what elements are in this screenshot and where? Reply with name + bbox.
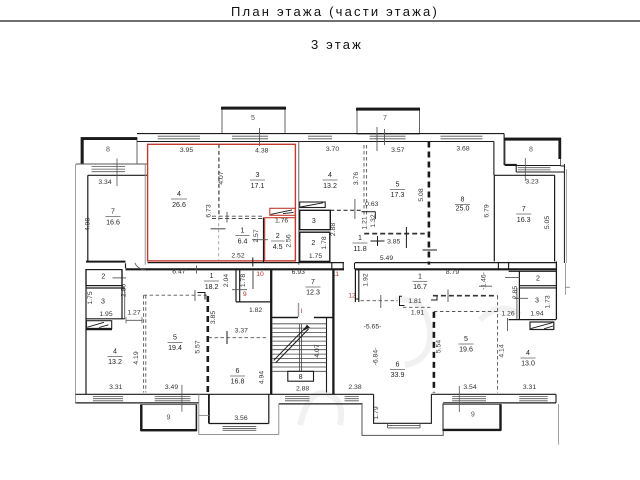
svg-text:1.79: 1.79 <box>373 406 380 419</box>
svg-text:1: 1 <box>241 227 245 235</box>
red apartment boundary <box>148 144 296 261</box>
balcony 7 top <box>356 108 420 134</box>
svg-text:5: 5 <box>173 334 177 342</box>
svg-text:6: 6 <box>396 361 400 369</box>
svg-text:4.07: 4.07 <box>314 344 321 357</box>
door jambs corridor <box>332 263 509 270</box>
stair arrow <box>274 327 309 363</box>
svg-text:13.0: 13.0 <box>521 360 535 368</box>
svg-text:1.32: 1.32 <box>370 214 377 227</box>
outer left facade line <box>75 164 77 403</box>
svg-text:7: 7 <box>311 278 315 286</box>
svg-text:16.8: 16.8 <box>231 378 245 386</box>
room 4/13.2 upper label <box>323 171 338 190</box>
svg-text:17.3: 17.3 <box>391 191 405 199</box>
svg-text:3.31: 3.31 <box>109 384 122 391</box>
small room 3 upper-right <box>300 210 331 229</box>
svg-text:1.92: 1.92 <box>362 273 369 286</box>
svg-text:3.70: 3.70 <box>326 146 339 153</box>
svg-text:19.4: 19.4 <box>168 344 182 352</box>
svg-text:3: 3 <box>101 298 105 306</box>
svg-text:3.54: 3.54 <box>463 384 476 391</box>
top wall right section <box>505 158 565 186</box>
svg-text:2: 2 <box>276 232 280 240</box>
room 7/12.3 label <box>306 278 321 297</box>
svg-text:3.85: 3.85 <box>387 239 400 246</box>
dashed partitions flat 12 <box>361 301 434 308</box>
svg-text:4: 4 <box>328 171 332 179</box>
balcony 9 bottom-right <box>443 404 501 430</box>
bottom windows <box>93 397 548 401</box>
svg-text:4.38: 4.38 <box>255 148 268 155</box>
svg-text:6: 6 <box>236 367 240 375</box>
svg-text:4.5: 4.5 <box>273 243 283 251</box>
room 1 label <box>236 227 250 246</box>
svg-text:3.34: 3.34 <box>98 179 111 186</box>
right outer wall <box>563 164 565 263</box>
bold dashed panel wall 17.3(11.8)/25.0 <box>428 142 431 265</box>
svg-text:2.38: 2.38 <box>348 384 361 391</box>
stairwell right wall <box>332 269 334 394</box>
svg-text:1.82: 1.82 <box>249 307 262 314</box>
svg-text:-5.65-: -5.65- <box>364 324 382 331</box>
svg-text:18.2: 18.2 <box>205 283 219 291</box>
wall room1/room2 <box>263 218 265 263</box>
svg-text:5.05: 5.05 <box>544 216 551 229</box>
porch outer <box>362 403 443 436</box>
room 1/18.2 label <box>204 272 219 291</box>
svg-text:3.31: 3.31 <box>523 384 536 391</box>
svg-text:1.95: 1.95 <box>99 311 112 318</box>
svg-text:1.76: 1.76 <box>275 217 288 224</box>
svg-text:11.8: 11.8 <box>353 245 366 253</box>
svg-text:1.81: 1.81 <box>408 298 421 305</box>
hatch box below room 3 <box>87 321 113 330</box>
porch steps <box>388 423 421 428</box>
hatch box below right room 3 <box>530 322 554 330</box>
svg-text:16.6: 16.6 <box>106 219 120 227</box>
svg-text:6.47: 6.47 <box>172 269 185 276</box>
svg-text:3 этаж: 3 этаж <box>311 37 363 52</box>
svg-text:6.73: 6.73 <box>205 204 212 217</box>
svg-text:4.98: 4.98 <box>85 218 92 231</box>
svg-text:I: I <box>301 308 303 315</box>
top wall main block <box>137 127 504 151</box>
open door leaf flat9 <box>252 270 254 289</box>
svg-text:1.27: 1.27 <box>127 310 140 317</box>
svg-text:3.68: 3.68 <box>456 146 469 153</box>
dashed partition above small rooms <box>330 209 363 211</box>
svg-text:4.19: 4.19 <box>133 351 140 364</box>
room 4 label <box>171 190 187 209</box>
svg-text:План этажа (части этажа): План этажа (части этажа) <box>231 4 439 19</box>
wall red apt / room 4-13.2 <box>298 142 300 265</box>
balcony 5 top <box>221 107 286 134</box>
room 7/16.3 top wall inner <box>494 175 554 261</box>
small room 2 upper-right <box>300 232 330 261</box>
svg-text:5: 5 <box>396 181 400 189</box>
protrusion room 16.8 lower part <box>199 394 279 434</box>
room 3 label <box>250 171 265 190</box>
svg-text:2.57: 2.57 <box>253 229 260 242</box>
room 4/13.2 lower label <box>108 348 123 367</box>
svg-text:8: 8 <box>299 373 303 381</box>
svg-text:2: 2 <box>536 275 540 283</box>
stair stringer <box>300 324 302 372</box>
svg-text:4.94: 4.94 <box>259 371 266 384</box>
room 5/17.3 label <box>390 181 405 200</box>
stair treads <box>273 324 327 372</box>
svg-text:3.37: 3.37 <box>235 328 248 335</box>
svg-text:0.63: 0.63 <box>365 201 378 208</box>
dashed partition room4/room1 <box>212 216 264 218</box>
room 1/16.7 label <box>413 272 428 291</box>
svg-text:5: 5 <box>251 114 255 122</box>
svg-text:13.2: 13.2 <box>108 358 122 366</box>
balcony 9 bottom-left <box>141 405 197 431</box>
room 4/13.0 label <box>521 349 536 368</box>
svg-text:26.6: 26.6 <box>172 201 186 209</box>
L bracket <box>198 293 206 300</box>
wall between room 7 and room 4 <box>144 164 146 265</box>
svg-text:2.86: 2.86 <box>120 284 127 297</box>
double dashed partition 13.2/17.3 <box>364 145 367 216</box>
door brackets <box>362 212 385 246</box>
svg-text:3.23: 3.23 <box>525 179 538 186</box>
bottom wall line B <box>76 403 557 404</box>
svg-text:8: 8 <box>461 196 465 204</box>
svg-text:3.57: 3.57 <box>391 147 404 154</box>
svg-text:16.7: 16.7 <box>413 283 427 291</box>
svg-text:5.57: 5.57 <box>195 340 202 353</box>
right lower stub <box>558 404 560 445</box>
svg-text:7: 7 <box>111 208 115 216</box>
svg-text:4: 4 <box>177 190 181 198</box>
svg-text:6.4: 6.4 <box>238 238 248 246</box>
svg-text:2: 2 <box>311 239 315 247</box>
svg-text:5.54: 5.54 <box>436 340 443 353</box>
balcony 8 top-left <box>81 138 137 165</box>
svg-text:5: 5 <box>464 335 468 343</box>
svg-text:5.08: 5.08 <box>418 188 425 201</box>
room 5/19.4 label <box>168 334 183 353</box>
svg-text:4: 4 <box>113 348 117 356</box>
lower-left room 2 <box>86 270 126 286</box>
svg-text:4.14: 4.14 <box>498 344 505 357</box>
svg-text:1.26: 1.26 <box>501 311 514 318</box>
room 2 label <box>271 232 285 251</box>
svg-text:4: 4 <box>526 349 530 357</box>
svg-text:1.21: 1.21 <box>361 216 368 229</box>
svg-text:2.52: 2.52 <box>231 252 244 259</box>
door arc <box>135 263 148 270</box>
svg-text:1.73: 1.73 <box>545 295 552 308</box>
svg-text:3.95: 3.95 <box>180 147 193 154</box>
room 7/16.6 label <box>106 208 121 227</box>
bold dashed wall 33.9/19.6 <box>433 312 436 393</box>
left wall upper (room 7/16.6) <box>87 175 89 261</box>
svg-text:1.75: 1.75 <box>309 253 322 260</box>
room 6/16.8 label <box>230 367 245 386</box>
svg-text:6.93: 6.93 <box>292 269 305 276</box>
room 7/16.3 label <box>516 205 531 224</box>
svg-text:4.07: 4.07 <box>218 171 225 184</box>
svg-text:1.75: 1.75 <box>87 291 94 304</box>
svg-text:2.85: 2.85 <box>512 286 519 299</box>
step in outline to right section <box>494 134 516 176</box>
room 8/25.0 label <box>455 196 470 213</box>
svg-text:10: 10 <box>256 271 264 278</box>
svg-text:2.88: 2.88 <box>296 386 309 393</box>
svg-text:9: 9 <box>167 414 171 422</box>
corridor upper line <box>86 261 126 263</box>
svg-text:8.79: 8.79 <box>446 269 459 276</box>
porch inner <box>374 394 432 423</box>
svg-text:9: 9 <box>243 291 247 298</box>
left wall lower <box>85 269 87 394</box>
room 7 right wall <box>554 175 556 261</box>
dashed partition room4/room3 <box>218 144 220 217</box>
svg-text:33.9: 33.9 <box>391 371 405 379</box>
svg-text:1.78: 1.78 <box>240 274 247 287</box>
svg-text:9: 9 <box>471 411 475 419</box>
lower-right rooms 2 and 3 <box>479 261 556 331</box>
dashed double partition 13.2/19.4 <box>144 295 146 392</box>
svg-text:17.1: 17.1 <box>251 182 265 190</box>
flat 9 hall walls <box>236 269 272 302</box>
svg-text:16.3: 16.3 <box>517 216 531 224</box>
svg-text:-6.84-: -6.84- <box>372 348 379 366</box>
dim 1.27 <box>126 310 142 324</box>
svg-text:1: 1 <box>418 272 422 280</box>
svg-text:1: 1 <box>210 272 214 280</box>
svg-text:25.0: 25.0 <box>456 205 470 213</box>
window below balcony 8 TL <box>76 159 148 187</box>
svg-text:1: 1 <box>358 234 362 242</box>
svg-text:3.76: 3.76 <box>353 172 360 185</box>
svg-text:7: 7 <box>383 114 387 122</box>
svg-text:2.04: 2.04 <box>223 274 230 287</box>
room 5/19.6 label <box>459 335 474 354</box>
bottom wall line A <box>76 393 557 395</box>
svg-text:3: 3 <box>312 217 316 225</box>
svg-text:19.6: 19.6 <box>459 346 473 354</box>
red window niche <box>270 208 296 215</box>
svg-text:6.79: 6.79 <box>484 204 491 217</box>
svg-text:2.56: 2.56 <box>286 234 293 247</box>
dashed partition 3.37 <box>209 337 268 339</box>
dashed partition 19.6/13.0 <box>497 296 499 393</box>
red room 2 outline <box>265 218 296 261</box>
svg-text:8: 8 <box>529 146 533 154</box>
svg-text:8: 8 <box>106 146 110 154</box>
balcony 8 top-right <box>504 138 561 166</box>
svg-text:2.88: 2.88 <box>330 223 337 236</box>
faint watermark <box>300 299 520 425</box>
svg-text:1.94: 1.94 <box>530 311 543 318</box>
svg-text:3: 3 <box>535 297 539 305</box>
svg-text:12.3: 12.3 <box>306 289 320 297</box>
svg-text:3.85: 3.85 <box>210 311 217 324</box>
bold dashed wall 19.4/16.8 <box>207 296 210 393</box>
flat 12 hall walls <box>355 269 358 302</box>
title rule <box>0 20 640 22</box>
svg-text:2: 2 <box>101 272 105 280</box>
stairwell left wall <box>270 269 272 394</box>
lower-left room 3 <box>86 270 127 319</box>
svg-text:3.49: 3.49 <box>165 384 178 391</box>
stair landing 8 <box>288 371 314 381</box>
svg-text:3: 3 <box>256 171 260 179</box>
svg-text:-1.46-: -1.46- <box>480 272 487 290</box>
stairwell top wall with door <box>271 317 333 319</box>
svg-text:3.56: 3.56 <box>234 415 247 422</box>
svg-text:5.49: 5.49 <box>380 255 393 262</box>
svg-text:7: 7 <box>522 205 526 213</box>
svg-text:1.78: 1.78 <box>321 236 328 249</box>
dashed top of room 19.4 <box>144 294 208 296</box>
dashed partition 3.85 <box>364 233 425 235</box>
svg-text:13.2: 13.2 <box>323 182 337 190</box>
black sill box upper-right <box>300 202 326 208</box>
room 1/11.8 label <box>353 234 368 253</box>
svg-text:1.91: 1.91 <box>411 310 424 317</box>
corridor thick line <box>126 268 558 270</box>
